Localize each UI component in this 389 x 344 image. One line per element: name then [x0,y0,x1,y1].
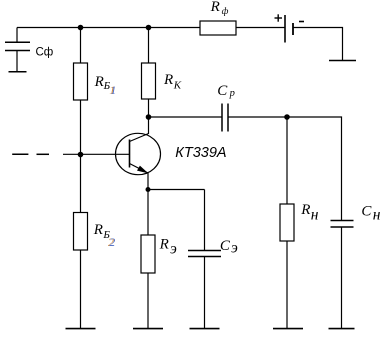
wire Ce to ground [204,257,206,328]
wire RB2 to ground [80,250,82,328]
wire Ce branch down [204,190,206,251]
transistor Q1 circle [116,133,161,174]
node dot base [78,152,84,158]
capacitor Cp plates [221,104,223,132]
wire output node to Rn [286,117,288,204]
wire RB1 to base node [80,100,82,213]
resistor Rn [280,204,294,241]
svg-text:н: н [373,206,381,223]
ground bar below Rn [273,328,303,330]
capacitor Cf plates [5,41,30,43]
wire collector node down to transistor [148,117,150,134]
node dot emitter [146,187,151,192]
resistor Re [141,235,155,273]
svg-text:К: К [173,79,182,91]
wire dashed input line dash 1 [12,153,28,155]
capacitor Cf bottom lead [16,51,18,72]
resistor Rf [200,21,236,35]
svg-text:C: C [220,238,231,254]
resistor RK [142,63,156,99]
wire dashed input line dash 2 [37,153,50,155]
svg-text:R: R [159,236,169,252]
transistor base bar [129,140,131,168]
battery plus sign [275,17,283,19]
battery positive plate [284,15,286,43]
svg-text:R: R [93,222,103,238]
svg-text:R: R [300,202,310,218]
wire Cn to ground [341,228,343,329]
svg-text:2: 2 [109,235,115,249]
wire output node to Cn corner [287,117,342,220]
node dot rail-RK [146,25,152,31]
transistor emitter arrowhead [137,166,148,174]
wire battery to down corner [294,28,343,61]
wire Cp to output node [229,116,288,118]
wire Re to ground [147,273,149,328]
svg-text:R: R [94,74,104,90]
svg-text:C: C [361,204,372,220]
svg-text:R: R [210,0,220,15]
svg-text:н: н [311,206,319,223]
wire rail to RK [148,28,150,64]
resistor RB2 [74,213,88,251]
svg-text:C: C [217,83,228,99]
capacitor Cf lead from rail [16,28,18,43]
wire top rail between Rf and battery [236,27,285,29]
ground bar below Cf [9,71,27,73]
svg-text:э: э [170,241,177,258]
capacitor Cn plates [331,220,354,222]
node dot output [284,114,290,120]
node dot collector [146,114,152,120]
capacitor Ce plates [188,250,221,252]
svg-text:1: 1 [110,83,116,97]
battery minus sign [299,21,304,23]
ground bar below Re [133,328,163,330]
svg-text:ф: ф [222,6,229,17]
ground bar below Ce [190,328,220,330]
wire input to base [63,153,129,155]
wire emitter node to Ce branch [148,189,205,191]
wire collector node to Cp [149,116,222,118]
svg-text:R: R [163,72,173,88]
transistor emitter diagonal [130,164,149,174]
svg-text:э: э [231,240,238,257]
node dot rail-RB1 [78,25,84,31]
ground top right earth bar [329,60,356,62]
ground bar below RB2 [66,328,96,330]
wire top rail left segment [17,27,200,29]
svg-text:КТ339А: КТ339А [175,145,226,161]
ground bar below Cn [329,328,355,330]
wire emitter down [147,173,149,235]
wire rail to RB1 [80,28,82,64]
svg-text:Сф: Сф [36,47,54,59]
transistor collector diagonal [130,134,149,142]
resistor RB1 [74,63,88,100]
wire Rn to ground [286,241,288,328]
battery negative plate [292,23,294,35]
wire RK to collector node [148,99,150,117]
svg-text:р: р [229,88,235,99]
